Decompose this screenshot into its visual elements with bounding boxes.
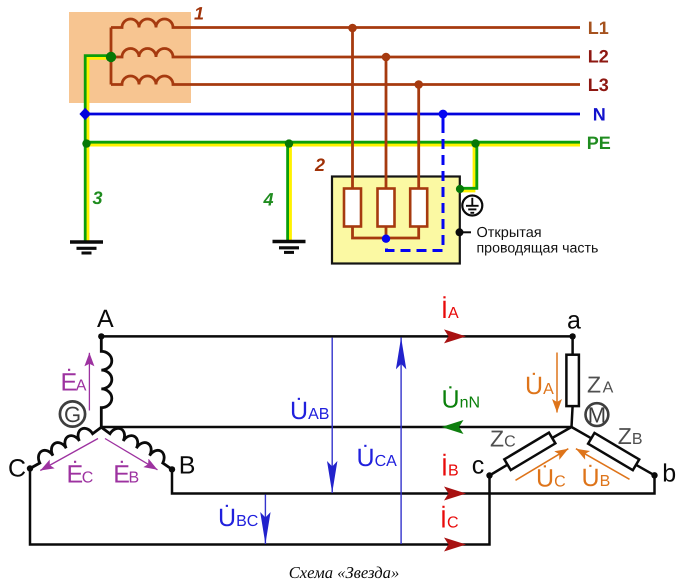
arrow EMF EB: [105, 439, 158, 470]
svg-text:3: 3: [93, 188, 103, 208]
svg-text:U̇C: U̇C: [536, 465, 566, 493]
PEN conductor wire (yellow layer): [88, 58, 111, 241]
node PE at appliance (green): [456, 185, 464, 193]
svg-text:U̇CA: U̇CA: [357, 444, 398, 472]
arrow voltage UC: [516, 449, 569, 481]
ground 4 drop wire (green layer): [286, 144, 289, 242]
wire phase A top: [101, 335, 572, 338]
wire phase B: [172, 469, 655, 493]
generator winding A: [101, 336, 112, 427]
N bus wire: [84, 113, 580, 116]
PE bus wire (green layer): [84, 141, 580, 144]
svg-text:L2: L2: [588, 47, 609, 67]
svg-text:U̇AB: U̇AB: [290, 397, 329, 425]
svg-text:Открытая: Открытая: [477, 225, 542, 241]
ground 4 drop wire (yellow layer): [289, 145, 292, 241]
arrow EMF EA: [88, 353, 90, 411]
node L3 tap: [414, 80, 423, 89]
svg-text:ZA: ZA: [587, 372, 614, 398]
svg-text:B: B: [179, 452, 196, 480]
node diamond N-PEN split: [79, 108, 91, 120]
ground electrode 4: [273, 242, 306, 253]
arrow voltage UnN: [442, 420, 464, 434]
svg-text:U̇BC: U̇BC: [218, 504, 258, 532]
svg-text:проводящая часть: проводящая часть: [477, 240, 599, 256]
arrow voltage UA: [556, 353, 558, 413]
arrow current IC: [444, 538, 466, 552]
svg-text:N: N: [593, 105, 606, 125]
load element R1: [344, 189, 361, 227]
node C: [27, 465, 33, 471]
svg-text:b: b: [662, 460, 676, 488]
svg-text:PE: PE: [587, 133, 611, 153]
appliance box (yellow): [332, 177, 460, 264]
arrow voltage UCA: [400, 337, 402, 544]
arrow current IA: [444, 329, 466, 343]
wire N working (solid lead): [442, 114, 445, 133]
motor symbol M: [586, 403, 609, 426]
wire Zb leads: [572, 427, 655, 475]
svg-text:a: a: [567, 307, 581, 335]
svg-text:ĖB: ĖB: [113, 461, 139, 489]
ground electrode 3: [70, 242, 103, 253]
wire N working (dashed): [387, 139, 444, 251]
svg-text:U̇B: U̇B: [582, 464, 611, 492]
node B: [169, 466, 175, 472]
PE drop to appliance (yellow layer): [460, 145, 474, 191]
load element R3: [410, 189, 427, 227]
svg-text:A: A: [97, 305, 114, 333]
earth terminal symbol (circled): [462, 196, 482, 216]
arrow voltage UAB: [331, 338, 333, 493]
generator winding C: [30, 427, 101, 468]
svg-text:L1: L1: [588, 18, 609, 38]
wire phase C: [30, 469, 490, 545]
node PE ground-4 tee (green): [285, 139, 293, 147]
svg-text:ĖC: ĖC: [67, 461, 94, 489]
node load neutral (blue): [382, 235, 390, 243]
arrow voltage UB: [576, 449, 630, 480]
svg-text:M: M: [588, 402, 606, 427]
svg-text:4: 4: [263, 190, 274, 210]
generator winding B: [101, 427, 172, 469]
impedance Zc: [504, 433, 555, 470]
svg-text:ZC: ZC: [490, 425, 516, 451]
svg-text:U̇nN: U̇nN: [442, 386, 481, 414]
svg-text:Схема «Звезда»: Схема «Звезда»: [289, 563, 400, 582]
wire L2 tap: [385, 57, 388, 189]
wire Zc leads: [490, 427, 572, 476]
node a: [569, 333, 575, 339]
wire neutral nN: [101, 426, 571, 429]
winding W2: [111, 49, 580, 58]
wire Za leads: [572, 336, 573, 427]
impedance Za: [566, 355, 579, 406]
node L2 tap: [382, 53, 391, 62]
wire L3 tap: [417, 85, 420, 189]
svg-text:L3: L3: [588, 75, 609, 95]
node N tap: [439, 110, 448, 119]
PE bus wire (yellow layer): [85, 144, 580, 147]
impedance Zb: [588, 433, 639, 470]
svg-text:ĖA: ĖA: [61, 369, 87, 397]
winding W3: [111, 76, 580, 85]
load element R2: [378, 189, 395, 227]
svg-text:İB: İB: [441, 454, 459, 482]
node b: [651, 472, 657, 478]
winding W1: [111, 19, 580, 28]
callout exposed conductive part: [456, 228, 464, 236]
svg-text:C: C: [8, 455, 26, 483]
node PE tap (green): [471, 139, 479, 147]
wire L1 tap: [351, 28, 354, 189]
transformer box (orange): [69, 12, 191, 103]
svg-text:İA: İA: [441, 296, 459, 324]
node c: [486, 472, 492, 478]
svg-text:c: c: [472, 452, 485, 480]
svg-text:1: 1: [194, 4, 204, 24]
arrow current IB: [444, 487, 466, 501]
svg-text:İC: İC: [440, 506, 459, 534]
generator symbol G: [60, 401, 85, 426]
arrow voltage UBC: [264, 495, 266, 545]
node A: [98, 333, 104, 339]
wire load star bus: [353, 227, 419, 239]
svg-text:G: G: [64, 402, 81, 427]
svg-text:U̇A: U̇A: [525, 372, 554, 400]
arrow EMF EC: [40, 439, 98, 471]
svg-text:ZB: ZB: [618, 423, 643, 449]
PE drop to appliance (green layer): [460, 144, 477, 189]
node L1 tap: [348, 24, 357, 33]
winding common vertical: [110, 28, 113, 85]
svg-text:2: 2: [314, 155, 325, 175]
PEN conductor wire (green layer): [85, 56, 111, 242]
node neutral point (green): [106, 52, 116, 62]
node PE-PEN tee (green): [82, 139, 90, 147]
